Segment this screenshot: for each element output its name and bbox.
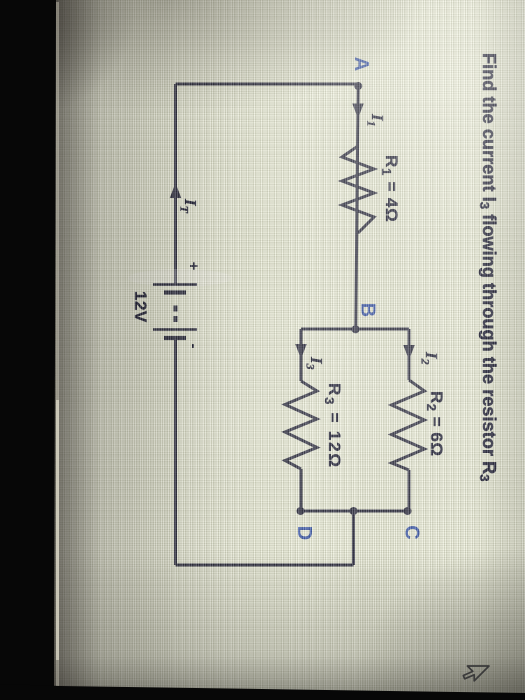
node B vertical bar — [301, 328, 409, 331]
arrow I3 — [295, 344, 307, 359]
wire: A to B top rail — [356, 86, 358, 329]
svg-text:R3 = 12Ω: R3 = 12Ω — [322, 383, 344, 469]
svg-text:+: + — [185, 262, 202, 271]
junction node on C-D bar — [350, 507, 358, 515]
resistor R3 zigzag — [285, 381, 317, 469]
svg-text:12V: 12V — [131, 291, 150, 323]
wire: R3 branch B to D — [300, 329, 303, 511]
svg-text:R1 = 4Ω: R1 = 4Ω — [379, 155, 401, 223]
bottom black bezel — [0, 684, 525, 700]
wire: left edge A to bottom-left corner — [176, 83, 359, 86]
svg-text:I1: I1 — [365, 113, 388, 127]
wire: right edge down — [176, 564, 354, 567]
node D — [297, 507, 305, 515]
resistor R1 zigzag — [342, 146, 374, 233]
svg-text:IT: IT — [178, 198, 201, 214]
node B — [352, 325, 360, 333]
wire: junction M to right corner — [352, 511, 355, 565]
svg-text:D: D — [293, 526, 315, 540]
wire: R2 branch B to C — [408, 329, 411, 511]
wire: C-D bar — [301, 510, 409, 513]
svg-text:Find the current I3 flowing th: Find the current I3 flowing through the … — [477, 53, 499, 482]
left black bezel — [0, 0, 56, 700]
svg-text:I2: I2 — [419, 351, 442, 365]
svg-text:B: B — [357, 303, 379, 317]
resistor R2 zigzag — [392, 380, 425, 470]
svg-text:I3: I3 — [304, 356, 327, 370]
node C — [404, 507, 412, 515]
bright screen edge highlight — [56, 2, 59, 688]
node A — [354, 82, 362, 90]
svg-text:C: C — [401, 525, 423, 539]
svg-text:A: A — [350, 57, 372, 71]
svg-text:-: - — [185, 344, 202, 349]
mouse cursor — [463, 666, 489, 681]
battery 12V — [153, 285, 197, 339]
wire: bottom rail right (corner to battery -) — [174, 338, 177, 565]
svg-text:R2 = 6Ω: R2 = 6Ω — [424, 391, 446, 456]
arrow IT — [170, 183, 182, 198]
arrow I2 — [403, 345, 415, 360]
screen glare near battery — [128, 269, 232, 287]
arrow I1 — [352, 104, 364, 119]
wire: bottom rail left (corner to battery +) — [174, 84, 177, 284]
